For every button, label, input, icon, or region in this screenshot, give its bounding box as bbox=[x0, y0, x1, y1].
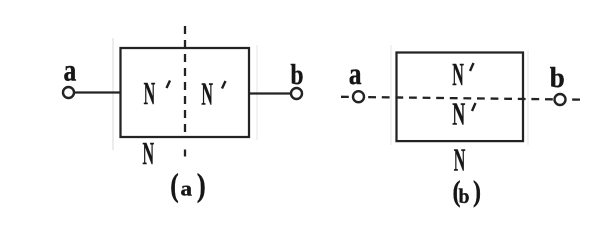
wire: lead from box to terminal b (figure a) bbox=[249, 92, 291, 94]
network box N (figure a) bbox=[121, 48, 250, 137]
wire: lead from terminal a to box (figure a) bbox=[74, 91, 121, 93]
symmetry axis (figure a), dash below box bbox=[184, 150, 186, 157]
scan artifact faint line right of box (b) bbox=[527, 50, 529, 145]
symmetry axis, vertical dashed (figure a), upper part bbox=[184, 26, 186, 137]
svg-text:a: a bbox=[181, 177, 193, 201]
terminal a node circle (figure b) bbox=[353, 91, 364, 102]
svg-text:): ) bbox=[473, 176, 481, 208]
svg-text:b: b bbox=[550, 62, 565, 94]
svg-text:b: b bbox=[459, 184, 470, 208]
caption (b) bbox=[453, 176, 482, 208]
svg-text:N: N bbox=[452, 57, 464, 92]
symmetry axis, horizontal dashed (figure b) bbox=[341, 97, 585, 100]
caption (a) bbox=[170, 168, 205, 204]
svg-text:N: N bbox=[201, 77, 213, 112]
svg-text:a: a bbox=[349, 56, 362, 91]
terminal b node circle (figure a) bbox=[291, 88, 302, 99]
scan artifact faint line right of box (a) bbox=[256, 45, 258, 140]
terminal a node circle (figure a) bbox=[63, 87, 74, 98]
scan artifact faint line left of box (a) bbox=[112, 38, 114, 150]
svg-text:N: N bbox=[143, 136, 155, 171]
svg-text:N: N bbox=[454, 143, 466, 178]
terminal b node circle (figure b) bbox=[555, 94, 566, 105]
label N' left half (figure a) bbox=[144, 76, 170, 111]
svg-text:a: a bbox=[64, 53, 77, 88]
label N' upper half (figure b) bbox=[452, 57, 473, 92]
svg-text:N: N bbox=[452, 97, 465, 132]
svg-text:N: N bbox=[144, 76, 156, 111]
network box N (figure b) bbox=[397, 53, 524, 142]
scan artifact faint line left of box (b) bbox=[390, 45, 392, 145]
svg-text:(: ( bbox=[170, 168, 179, 204]
svg-text:): ) bbox=[197, 168, 206, 204]
label N' lower half (figure b) bbox=[452, 97, 475, 132]
label N' right half (figure a) bbox=[201, 77, 225, 112]
svg-text:b: b bbox=[291, 59, 304, 91]
